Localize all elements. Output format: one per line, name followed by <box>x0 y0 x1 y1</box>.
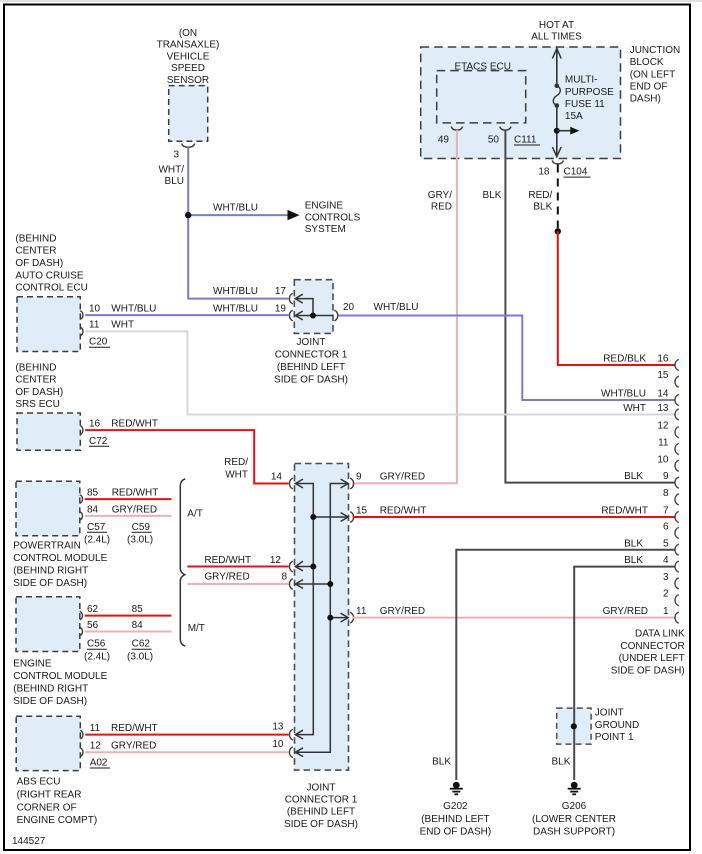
svg-text:AUTO CRUISE: AUTO CRUISE <box>15 270 83 281</box>
svg-text:CONTROLS: CONTROLS <box>305 212 361 223</box>
pin 17 arrow <box>295 294 303 303</box>
svg-text:CONTROL MODULE: CONTROL MODULE <box>13 553 107 564</box>
svg-text:VEHICLE: VEHICLE <box>167 51 210 62</box>
svg-text:(2.4L): (2.4L) <box>84 652 110 663</box>
cruise pin 10 bump <box>80 311 83 320</box>
svg-text:JOINT: JOINT <box>297 337 326 348</box>
svg-text:11: 11 <box>90 723 101 734</box>
svg-text:49: 49 <box>438 135 450 146</box>
svg-text:WHT/: WHT/ <box>158 165 184 176</box>
svg-text:DASH SUPPORT): DASH SUPPORT) <box>533 827 615 838</box>
pin 9 bump <box>350 478 353 489</box>
svg-text:BLK: BLK <box>482 190 501 201</box>
svg-text:SPEED: SPEED <box>171 63 205 74</box>
svg-text:DASH): DASH) <box>630 94 661 105</box>
wire WHT/BLU branch to engine controls <box>188 214 288 216</box>
svg-text:C111: C111 <box>514 135 537 146</box>
svg-text:A/T: A/T <box>187 509 203 520</box>
svg-text:BLK: BLK <box>432 756 451 767</box>
ETACS pin 50 bump <box>500 127 511 131</box>
svg-text:144527: 144527 <box>12 836 46 847</box>
svg-text:85: 85 <box>87 488 99 499</box>
wire BLK through joint ground point <box>573 708 575 744</box>
svg-text:RED/BLK: RED/BLK <box>603 354 646 365</box>
bus B junction dot pin 8 <box>327 581 333 587</box>
svg-text:SIDE OF DASH): SIDE OF DASH) <box>13 696 87 707</box>
svg-text:WHT: WHT <box>111 320 134 331</box>
svg-text:GRY/RED: GRY/RED <box>380 606 425 617</box>
svg-text:(BEHIND: (BEHIND <box>15 233 56 244</box>
svg-text:(BEHIND RIGHT: (BEHIND RIGHT <box>13 565 88 576</box>
data link connector pin 7 bump <box>675 511 679 522</box>
wire WHT cruise pin11 to DLC pin 13 <box>85 331 674 414</box>
svg-text:8: 8 <box>663 488 669 499</box>
wire GRY/RED pcm pin 84 <box>85 515 172 517</box>
vehicle speed sensor box <box>169 86 208 142</box>
pin 13 bump <box>289 729 292 740</box>
svg-text:RED: RED <box>431 201 452 212</box>
svg-text:8: 8 <box>281 572 287 583</box>
svg-text:(3.0L): (3.0L) <box>127 652 153 663</box>
svg-text:1: 1 <box>663 606 669 617</box>
svg-text:5: 5 <box>663 538 669 549</box>
svg-text:12: 12 <box>270 555 282 566</box>
wire GRY/RED pin 11 to DLC pin 1 <box>353 617 675 619</box>
svg-text:(ON: (ON <box>179 28 197 39</box>
svg-text:BLU: BLU <box>165 176 184 187</box>
wire RED/BLK fusible link dashed segment <box>557 165 559 229</box>
svg-text:10: 10 <box>657 454 669 465</box>
svg-text:GROUND: GROUND <box>595 720 639 731</box>
svg-text:PURPOSE: PURPOSE <box>565 87 614 98</box>
svg-text:4: 4 <box>663 555 669 566</box>
pcm pin 85 bump <box>80 495 83 504</box>
svg-text:GRY/RED: GRY/RED <box>603 606 648 617</box>
data link connector pin 11 bump <box>675 443 679 454</box>
svg-text:DATA LINK: DATA LINK <box>635 629 685 640</box>
svg-text:RED/WHT: RED/WHT <box>112 488 159 499</box>
svg-text:CENTER: CENTER <box>15 246 56 257</box>
svg-text:13: 13 <box>657 403 669 414</box>
svg-text:TRANSAXLE): TRANSAXLE) <box>157 40 220 51</box>
internal bus pin17 to pin19 line <box>296 299 333 316</box>
wire RED/WHT srs pin16 to joint connector pin 14 <box>85 430 288 483</box>
data link connector pin 6 bump <box>675 527 679 538</box>
svg-text:END OF: END OF <box>630 81 668 92</box>
bus A to pin 15 line <box>313 516 347 518</box>
svg-text:HOT AT: HOT AT <box>539 20 574 31</box>
wire RED/WHT abs pin 11 to joint connector pin 13 <box>85 734 288 736</box>
joint ground point 1 box <box>557 708 591 744</box>
wire RED/WHT ecm pin 62 <box>85 615 172 617</box>
junction node dot <box>185 212 191 218</box>
pcm pin 84 bump <box>80 512 83 521</box>
bus B to pin 11 line <box>330 617 347 619</box>
junction dot at fuse output <box>554 128 560 134</box>
pin 14 bump <box>289 478 292 489</box>
VSS pin 3 bump <box>182 144 195 148</box>
svg-text:84: 84 <box>87 504 99 515</box>
joint ground point dot <box>571 723 577 729</box>
svg-text:15: 15 <box>657 370 669 381</box>
abs pin 11 bump <box>80 730 83 739</box>
pin 19 arrow <box>295 311 303 320</box>
internal bus A <box>296 484 313 735</box>
arrow to engine controls system <box>288 210 300 220</box>
abs pin 12 bump <box>80 748 83 757</box>
svg-text:BLOCK: BLOCK <box>630 57 664 68</box>
svg-text:56: 56 <box>87 620 99 631</box>
pin 10 arrow <box>295 748 303 757</box>
pin 11 arrow <box>341 613 349 622</box>
svg-text:ENGINE: ENGINE <box>305 201 344 212</box>
svg-text:(BEHIND LEFT: (BEHIND LEFT <box>421 814 489 825</box>
svg-text:GRY/: GRY/ <box>428 190 452 201</box>
data link connector pin 8 bump <box>675 494 679 505</box>
branch arrow right <box>557 130 571 132</box>
svg-text:JOINT: JOINT <box>595 708 624 719</box>
pin 12 bump <box>289 561 292 572</box>
bus A junction dot pin 12 <box>310 564 316 570</box>
svg-text:(BEHIND LEFT: (BEHIND LEFT <box>277 362 345 373</box>
svg-text:(BEHIND: (BEHIND <box>15 362 56 373</box>
data link connector pin 9 bump <box>675 477 679 488</box>
internal bus B <box>296 484 347 753</box>
data link connector pin 4 bump <box>675 561 679 572</box>
ground G206 symbol <box>571 782 578 789</box>
svg-text:14: 14 <box>657 389 669 400</box>
svg-text:19: 19 <box>275 303 287 314</box>
svg-text:ENGINE: ENGINE <box>13 659 52 670</box>
svg-text:84: 84 <box>132 620 144 631</box>
srs ecu box <box>17 413 80 450</box>
svg-text:SENSOR: SENSOR <box>167 75 209 86</box>
ecm pin 56 bump <box>80 627 83 636</box>
pin 17 bump <box>289 293 292 304</box>
svg-text:(BEHIND RIGHT: (BEHIND RIGHT <box>13 684 88 695</box>
svg-text:FUSE 11: FUSE 11 <box>565 99 605 110</box>
svg-text:(2.4L): (2.4L) <box>84 535 110 546</box>
top gray strip <box>0 0 702 2</box>
svg-text:WHT/BLU: WHT/BLU <box>213 202 258 213</box>
svg-text:11: 11 <box>658 438 669 449</box>
pin 8 bump <box>289 579 292 590</box>
svg-text:RED/WHT: RED/WHT <box>601 506 648 517</box>
svg-text:C59: C59 <box>132 522 151 533</box>
bus B junction dot pin 11 <box>327 615 333 621</box>
pin 14 arrow <box>295 479 303 488</box>
svg-text:(ON LEFT: (ON LEFT <box>630 69 676 80</box>
svg-text:CORNER OF: CORNER OF <box>17 802 77 813</box>
line from fuse to C104 <box>556 106 558 157</box>
pin 13 arrow <box>295 730 303 739</box>
data link connector pin 2 bump <box>675 595 679 606</box>
svg-text:BLK: BLK <box>624 471 643 482</box>
svg-text:POINT 1: POINT 1 <box>595 732 634 743</box>
svg-text:15A: 15A <box>565 111 583 122</box>
powertrain control module box <box>16 481 80 536</box>
joint connector 1 lower box <box>295 464 349 771</box>
svg-text:17: 17 <box>275 286 287 297</box>
svg-text:RED/WHT: RED/WHT <box>380 506 427 517</box>
svg-text:WHT: WHT <box>225 470 248 481</box>
svg-text:20: 20 <box>343 302 355 313</box>
pin 11 bump <box>350 612 353 623</box>
svg-text:SYSTEM: SYSTEM <box>305 224 346 235</box>
svg-text:12: 12 <box>657 421 669 432</box>
svg-text:SIDE OF DASH): SIDE OF DASH) <box>274 375 348 386</box>
wire WHT/BLU from VSS down to junction <box>188 147 288 298</box>
pin 9 arrow <box>341 479 349 488</box>
data link connector pin 1 bump <box>675 612 679 623</box>
C104 bump at junction block bottom <box>552 160 563 164</box>
data link connector pin 16 bump <box>675 359 679 370</box>
svg-text:RED/WHT: RED/WHT <box>111 723 158 734</box>
svg-text:13: 13 <box>272 722 284 733</box>
svg-text:JUNCTION: JUNCTION <box>630 45 681 56</box>
down arrow at bottom border <box>552 147 561 157</box>
svg-text:C57: C57 <box>87 522 106 533</box>
svg-text:16: 16 <box>657 354 669 365</box>
svg-text:OF DASH): OF DASH) <box>15 387 63 398</box>
ecm pin 62 bump <box>80 611 83 620</box>
svg-text:A02: A02 <box>90 758 108 769</box>
svg-text:M/T: M/T <box>188 623 205 634</box>
svg-text:3: 3 <box>663 572 669 583</box>
svg-text:BLK: BLK <box>624 555 643 566</box>
wire WHT/BLU cruise pin10 to joint connector pin 19 <box>85 314 288 316</box>
svg-text:10: 10 <box>272 739 284 750</box>
data link connector pin 5 bump <box>675 544 679 555</box>
svg-text:GRY/RED: GRY/RED <box>380 471 425 482</box>
engine control module box <box>16 597 80 652</box>
pin 12 arrow <box>295 561 303 571</box>
svg-text:9: 9 <box>663 471 669 482</box>
wire RED/WHT pcm pin 85 <box>85 498 172 500</box>
wire WHT/BLU pin 20 to DLC pin 14 <box>338 316 675 401</box>
data link connector pin 15 bump <box>675 376 679 387</box>
data link connector pin 3 bump <box>675 578 679 589</box>
svg-text:C20: C20 <box>89 337 108 348</box>
up arrow at hot feed <box>552 49 561 59</box>
svg-text:85: 85 <box>132 604 144 615</box>
svg-text:10: 10 <box>89 303 101 314</box>
svg-text:BLK: BLK <box>533 201 552 212</box>
fuse feed line <box>556 48 558 84</box>
svg-text:RED/: RED/ <box>224 457 248 468</box>
pin 20 bump <box>334 310 337 321</box>
svg-text:MULTI-: MULTI- <box>565 75 598 86</box>
data link connector pin 14 bump <box>675 394 679 405</box>
svg-text:CONNECTOR 1: CONNECTOR 1 <box>275 350 348 361</box>
svg-text:SIDE OF DASH): SIDE OF DASH) <box>284 819 358 830</box>
wire GRY/RED to joint connector pin 8 <box>187 583 288 585</box>
svg-text:GRY/RED: GRY/RED <box>204 572 249 583</box>
pin 15 arrow <box>341 513 349 522</box>
svg-text:15: 15 <box>356 506 368 517</box>
svg-text:POWERTRAIN: POWERTRAIN <box>13 541 81 552</box>
svg-text:WHT: WHT <box>623 403 646 414</box>
svg-text:(3.0L): (3.0L) <box>127 535 153 546</box>
svg-text:OF DASH): OF DASH) <box>15 258 63 269</box>
data link connector pin 12 bump <box>675 427 679 438</box>
wire RED/WHT to joint connector pin 12 <box>187 566 288 568</box>
svg-text:C62: C62 <box>132 639 151 650</box>
svg-text:GRY/RED: GRY/RED <box>111 741 156 752</box>
pin 15 bump <box>350 512 353 523</box>
svg-text:BLK: BLK <box>551 756 570 767</box>
svg-text:50: 50 <box>488 135 500 146</box>
wire RED/WHT pin 15 to DLC pin 7 <box>353 516 675 518</box>
svg-text:(LOWER CENTER: (LOWER CENTER <box>532 814 616 825</box>
data link connector pin 13 bump <box>675 409 679 420</box>
pin 10 bump <box>289 747 292 758</box>
svg-text:ETACS ECU: ETACS ECU <box>454 61 511 72</box>
svg-text:WHT/BLU: WHT/BLU <box>601 389 646 400</box>
wire GRY/RED abs pin 12 to joint connector pin 10 <box>85 751 288 753</box>
svg-text:C104: C104 <box>564 167 588 178</box>
svg-text:WHT/BLU: WHT/BLU <box>374 302 419 313</box>
svg-text:WHT/BLU: WHT/BLU <box>213 303 258 314</box>
svg-text:16: 16 <box>89 418 101 429</box>
multi-purpose fuse 11 15A symbol <box>555 84 560 89</box>
A/T M/T selection brace <box>180 479 185 646</box>
wire GRY/RED ecm pin 56 <box>85 631 172 633</box>
svg-text:GRY/RED: GRY/RED <box>112 504 157 515</box>
pin 8 arrow <box>295 580 303 589</box>
pin 8 line to bus B <box>296 583 330 585</box>
svg-text:(UNDER LEFT: (UNDER LEFT <box>619 653 685 664</box>
wire RED/BLK to DLC pin 16 <box>558 231 675 365</box>
svg-text:ALL TIMES: ALL TIMES <box>531 32 582 43</box>
data link connector pin 10 bump <box>675 460 679 471</box>
svg-text:WHT/BLU: WHT/BLU <box>111 303 156 314</box>
svg-text:ENGINE COMPT): ENGINE COMPT) <box>17 815 98 826</box>
svg-text:WHT/BLU: WHT/BLU <box>213 286 258 297</box>
svg-text:(BEHIND LEFT: (BEHIND LEFT <box>287 807 355 818</box>
internal junction dot <box>310 313 316 319</box>
svg-text:6: 6 <box>663 522 669 533</box>
svg-text:RED/WHT: RED/WHT <box>204 555 251 566</box>
auto cruise control ecu box <box>17 297 80 352</box>
pin 12 line to bus A <box>296 566 313 568</box>
svg-text:SRS ECU: SRS ECU <box>15 399 59 410</box>
svg-text:14: 14 <box>271 471 283 482</box>
svg-text:C56: C56 <box>87 639 106 650</box>
ETACS pin 49 bump <box>451 127 462 131</box>
svg-text:G202: G202 <box>443 801 468 812</box>
svg-text:CONNECTOR: CONNECTOR <box>620 641 684 652</box>
joint connector 1 upper box <box>294 280 333 334</box>
svg-text:RED/: RED/ <box>528 190 552 201</box>
svg-text:CONTROL ECU: CONTROL ECU <box>15 283 87 294</box>
bus A junction dot pin 15 <box>310 514 316 520</box>
wire BLK from ETACS pin 50 down to DLC pin 9 <box>505 130 674 483</box>
svg-text:BLK: BLK <box>624 538 643 549</box>
svg-text:JOINT: JOINT <box>307 782 336 793</box>
wire BLK DLC pin 5 to ground G202 <box>456 550 674 780</box>
svg-text:(RIGHT REAR: (RIGHT REAR <box>17 790 82 801</box>
svg-text:C72: C72 <box>89 436 108 447</box>
svg-text:11: 11 <box>89 320 100 331</box>
junction block box <box>421 47 621 159</box>
node dot on RED/BLK wire <box>555 228 561 234</box>
cruise pin 11 bump <box>80 327 83 336</box>
wire BLK DLC pin 4 to ground G206 <box>574 567 674 780</box>
ETACS ECU box <box>437 71 526 123</box>
svg-text:11: 11 <box>356 606 367 617</box>
pin 19 bump <box>289 310 292 321</box>
svg-text:18: 18 <box>538 167 550 178</box>
svg-text:ABS ECU: ABS ECU <box>17 777 61 788</box>
svg-text:9: 9 <box>356 471 362 482</box>
svg-text:12: 12 <box>90 741 102 752</box>
svg-text:RED/WHT: RED/WHT <box>111 418 158 429</box>
srs pin 16 bump <box>80 426 83 435</box>
svg-text:2: 2 <box>663 589 669 600</box>
svg-text:SIDE OF DASH): SIDE OF DASH) <box>611 665 685 676</box>
svg-text:CENTER: CENTER <box>15 375 56 386</box>
svg-text:G206: G206 <box>562 801 587 812</box>
svg-text:END OF DASH): END OF DASH) <box>420 827 492 838</box>
abs ecu box <box>16 716 80 770</box>
wire GRY/RED from ETACS pin 49 down <box>353 130 457 483</box>
svg-text:CONNECTOR 1: CONNECTOR 1 <box>285 795 358 806</box>
svg-text:3: 3 <box>173 150 179 161</box>
svg-text:CONTROL MODULE: CONTROL MODULE <box>13 671 107 682</box>
svg-text:SIDE OF DASH): SIDE OF DASH) <box>13 578 87 589</box>
svg-text:7: 7 <box>663 506 669 517</box>
svg-text:62: 62 <box>87 604 99 615</box>
ground G202 symbol <box>453 782 460 789</box>
